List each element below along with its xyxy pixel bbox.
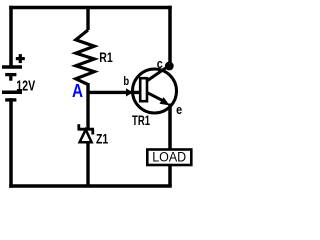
transistor TR1 collector lead [148,66,170,81]
wire top rail [11,6,170,10]
wire base (node A to transistor) [88,91,141,94]
battery cell1 positive plate [2,65,22,69]
wire left branch lower (battery - to bottom rail) [9,100,13,186]
transistor TR1 emitter arrowhead [160,97,170,105]
svg-text:R1: R1 [99,49,113,65]
junction dot collector [165,62,174,71]
base contact triangle [126,88,133,96]
battery plus sign [16,54,25,63]
svg-text:e: e [176,102,182,117]
load box [147,150,191,166]
svg-text:c: c [157,56,163,71]
transistor TR1 base bar [140,78,147,101]
wire middle branch (resistor to zener) [86,83,89,129]
wire zener to bottom rail [86,142,89,186]
svg-text:A: A [72,81,83,101]
battery cell1 negative plate [5,73,16,76]
wire right branch (top rail to collector) [168,8,172,65]
svg-text:LOAD: LOAD [152,149,186,164]
svg-text:b: b [123,74,129,88]
zener diode Z1 triangle [80,130,92,143]
battery cell2 positive plate [2,91,22,95]
wire emitter to load [168,104,172,151]
wire left branch upper (to battery +) [9,8,13,67]
wire bottom rail [11,184,170,188]
wire load to bottom rail [168,165,172,186]
svg-text:Z1: Z1 [96,132,109,147]
transistor TR1 circle [133,69,177,113]
battery cell1 negative stub [9,75,12,81]
svg-text:TR1: TR1 [132,112,150,128]
resistor R1 zigzag [76,30,95,85]
wire middle branch top stub [86,8,89,31]
transistor TR1 emitter lead [148,93,165,101]
zener diode Z1 cathode bar [78,124,95,134]
battery cell2 negative plate [5,98,16,101]
